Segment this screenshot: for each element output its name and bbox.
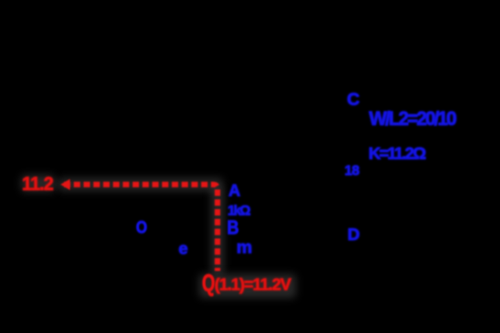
node C: blue collector label xyxy=(347,91,360,109)
node A: blue 1k ohm label xyxy=(228,203,249,217)
node C: blue K note xyxy=(369,145,425,162)
node C: blue W/L note xyxy=(369,110,455,129)
node B: blue B label xyxy=(227,219,239,239)
node A: blue A label xyxy=(229,183,241,200)
node A: red value 11.2 on left axis xyxy=(22,175,53,193)
wire: gray halo band behind vertical dashed line xyxy=(211,188,224,274)
node B: blue m label xyxy=(237,239,252,257)
wire: horizontal dashed segment turning down xyxy=(64,185,218,272)
node A: red Q point value xyxy=(215,277,291,294)
node E: blue e label xyxy=(179,240,188,257)
node D: blue D label xyxy=(348,226,360,243)
wire: gray halo band behind horizontal dashed line xyxy=(58,178,223,191)
node O: blue O label xyxy=(136,219,147,237)
node A: arrowhead pointing left xyxy=(61,179,71,190)
node C: blue 18 label xyxy=(345,163,360,177)
node A: gray halo behind 11.2 xyxy=(21,175,55,192)
node A: red Q point glyph xyxy=(202,272,215,296)
node A: gray halo behind Q label xyxy=(199,274,296,298)
